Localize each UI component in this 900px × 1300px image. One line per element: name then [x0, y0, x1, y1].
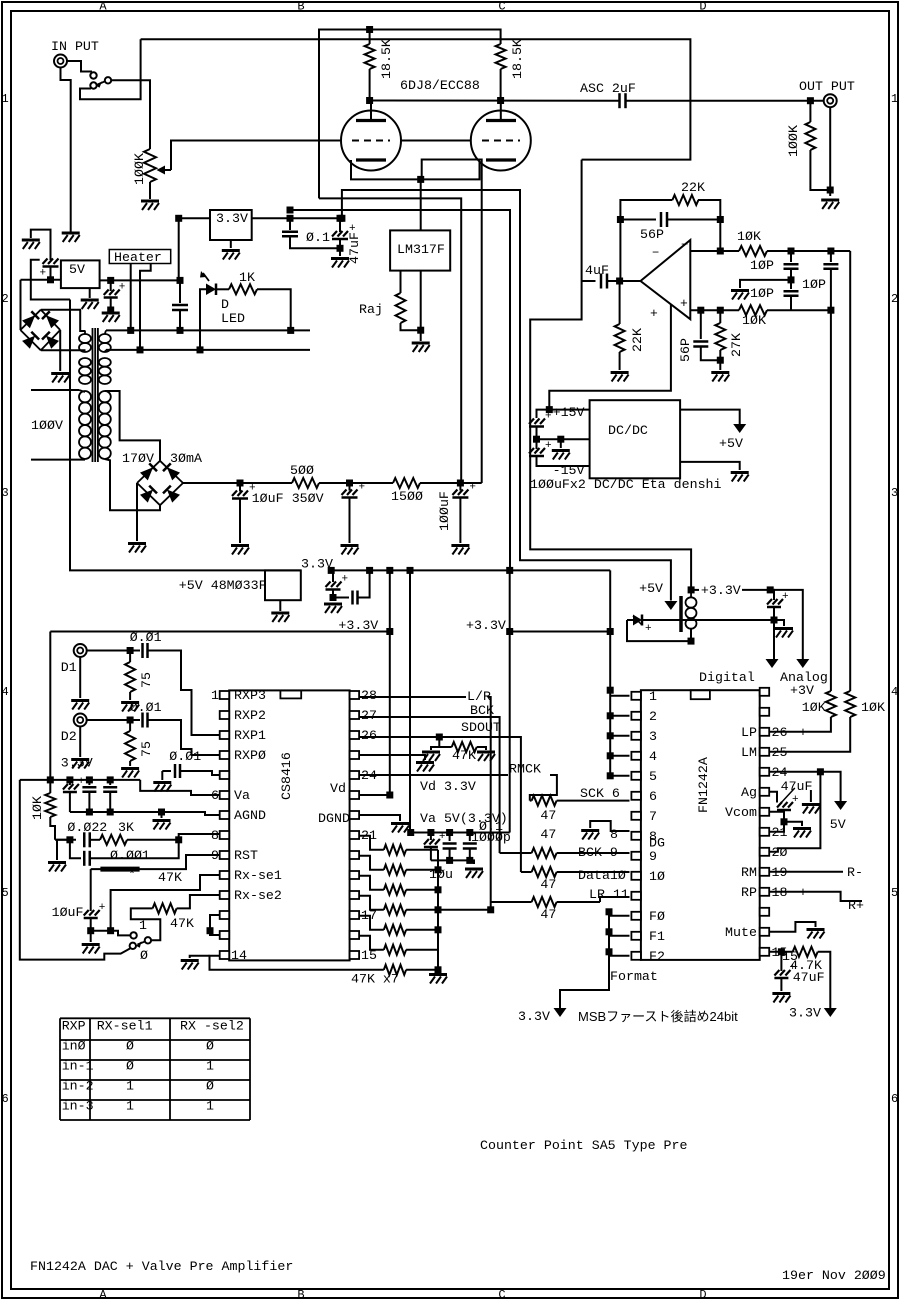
column label D top	[699, 0, 706, 14]
label 0.022	[67, 820, 107, 835]
pin number 1 CS8416	[211, 688, 219, 703]
label LR 11	[589, 887, 629, 902]
label +3V	[790, 683, 814, 698]
pin 21 CS8416 right	[350, 831, 360, 839]
capacitor C24 va ceramic	[82, 780, 96, 812]
ground sdout l	[422, 752, 440, 761]
wire pin14 wrap	[210, 956, 384, 970]
label 75 D2	[139, 741, 154, 757]
resistor R8 22K to gnd	[615, 281, 625, 370]
capacitor C30 10u	[424, 831, 446, 860]
date 19er Nov 2009	[782, 1268, 886, 1283]
pin number 20 fn	[772, 845, 788, 860]
node B+ mid	[346, 480, 353, 487]
svg-text:14: 14	[231, 948, 247, 963]
label +3.3V net	[701, 583, 741, 598]
row label 5 right	[891, 886, 898, 900]
ground bypass row	[465, 869, 483, 878]
resistor R11 10K lower	[739, 305, 831, 315]
label +3.3V mid	[466, 618, 506, 633]
pin 16 CS8416 right	[350, 931, 360, 939]
svg-text:+: +	[545, 440, 552, 452]
converter U6 DC/DC box	[590, 400, 681, 478]
svg-text:in-3: in-3	[62, 1099, 94, 1114]
svg-text:Ø: Ø	[206, 1039, 214, 1054]
wire +3.3V rail right	[510, 631, 611, 633]
label 47K sdout	[452, 748, 476, 763]
pin label RM fn	[741, 865, 757, 880]
IC U8 CS8416 body	[229, 690, 349, 960]
capacitor C25 va ceramic2	[103, 780, 117, 812]
node 3.3V out a	[287, 215, 294, 222]
wire +5V in pin	[680, 410, 740, 424]
pin label 9 fn	[649, 849, 657, 864]
label Va 5V(3.3V)	[420, 811, 508, 826]
wire 47Kx7 bus	[437, 850, 439, 970]
wire bypass row top	[410, 832, 510, 834]
pin label 4 fn	[649, 749, 657, 764]
label 1500	[391, 489, 423, 504]
wire bridge2 minus to ground	[136, 483, 138, 541]
label 27K	[729, 333, 744, 357]
pin 19 CS8416 right	[350, 871, 360, 879]
pin label DG fn	[649, 836, 665, 851]
ground rst	[48, 863, 66, 872]
pin number 25 fn	[772, 745, 788, 760]
pin label AGND	[234, 808, 266, 823]
svg-text:Ø.Ø1: Ø.Ø1	[130, 630, 162, 645]
resistor R5 500	[292, 478, 393, 488]
capacitor C21 0.01 D1	[143, 643, 220, 735]
svg-text:4: 4	[649, 749, 657, 764]
resistor R17 47K sel	[153, 895, 220, 913]
wire LED anode riser	[200, 289, 206, 350]
label BCK	[470, 703, 494, 718]
wire agnd to pin7	[162, 812, 220, 815]
svg-text:5V: 5V	[830, 817, 846, 832]
svg-text:4: 4	[2, 685, 9, 699]
net arrow +5V dcdc	[733, 424, 746, 433]
capacitor C33 47uF vcom	[777, 794, 799, 822]
svg-text:+3.3V: +3.3V	[338, 618, 378, 633]
pin 4 FN1242A left	[631, 752, 641, 760]
label +5V 48M033F	[179, 578, 267, 593]
capacitor ASC 2uF	[620, 93, 626, 108]
svg-text:RXP1: RXP1	[234, 728, 266, 743]
node opamp output	[616, 278, 623, 285]
wire 5V output	[100, 279, 180, 281]
wire plus input	[690, 309, 739, 311]
pin 24 CS8416 right	[350, 771, 360, 779]
node choke bottom	[688, 638, 695, 645]
wire pin14 gnd	[190, 956, 210, 958]
column label A top	[99, 0, 107, 14]
ground under bridge1	[51, 374, 69, 383]
wire rst gnd	[57, 840, 70, 860]
label LED	[221, 311, 245, 326]
svg-text:*: *	[128, 867, 136, 882]
capacitor C13 10P	[784, 280, 799, 310]
wire heater rail lower	[106, 349, 310, 351]
ground c26	[153, 783, 171, 792]
label 3.3V rail	[301, 557, 333, 572]
ground at input jack	[62, 230, 80, 242]
pin 24 FN1242A right	[760, 768, 770, 776]
svg-text:B: B	[297, 0, 304, 14]
svg-text:-15V: -15V	[553, 463, 585, 478]
wire grid link between tubes	[401, 140, 471, 142]
capacitor C8 0.1	[282, 218, 340, 248]
pin 5 FN1242A left	[631, 772, 641, 780]
svg-text:3K: 3K	[118, 820, 134, 835]
pin 22 CS8416 right	[350, 811, 360, 819]
node 3.3V out b	[337, 215, 344, 222]
label 100V	[31, 418, 63, 433]
svg-text:18.5K: 18.5K	[379, 39, 394, 79]
regulator U7 48M033F box	[265, 570, 301, 600]
node +3.3V b	[506, 628, 513, 635]
svg-text:B: B	[297, 1288, 304, 1300]
pin 9 CS8416 left	[220, 851, 230, 859]
node +3.3V choke	[688, 586, 695, 593]
label 100K output	[786, 125, 801, 157]
svg-text:RM: RM	[741, 865, 757, 880]
pin label LP fn	[741, 725, 757, 740]
svg-text:1ØP: 1ØP	[750, 258, 774, 273]
table row in0	[62, 1039, 214, 1054]
svg-text:Ø.1: Ø.1	[306, 230, 330, 245]
wire sdout gnd l	[431, 747, 452, 750]
pin label 5 fn	[649, 769, 657, 784]
title FN1242A DAC + Valve Pre Amplifier	[30, 1259, 293, 1274]
pin 26 CS8416 right	[350, 731, 360, 739]
resistor R24 10K lm	[769, 251, 855, 752]
pin 27 CS8416 right	[350, 711, 360, 719]
svg-text:7: 7	[649, 809, 657, 824]
label MSB japanese	[578, 1009, 738, 1024]
label SCK 6	[580, 786, 620, 801]
wire line H1 branch	[342, 190, 671, 601]
regulator U3 LM317F box	[390, 230, 450, 270]
wire digital gnd stub	[774, 620, 784, 626]
label 47 c	[540, 877, 556, 892]
node plus right	[827, 307, 834, 314]
svg-text:Ø.ØØ1: Ø.ØØ1	[110, 848, 150, 863]
net label Heater box	[109, 250, 170, 266]
wire 3.3Vd top rail	[49, 632, 51, 780]
resistor R7 Raj	[396, 271, 421, 331]
wire +3.3V label line	[691, 589, 770, 591]
svg-text:47K x7: 47K x7	[351, 972, 399, 987]
node plus in b	[717, 307, 724, 314]
svg-text:D: D	[699, 0, 706, 14]
label +3.3V left	[338, 618, 378, 633]
row label 1 left	[2, 92, 9, 106]
pin label RXP3	[234, 688, 266, 703]
wire c26 gnd	[161, 771, 163, 780]
wire 5V reg ground	[89, 288, 91, 298]
wire pin24 5V	[769, 772, 840, 801]
capacitor C23 va electrolytic	[63, 776, 85, 812]
svg-text:27K: 27K	[729, 333, 744, 357]
resistor R2 18.5K right plate	[496, 44, 506, 101]
node B+ rail junction	[366, 26, 373, 33]
wire D2 to cap	[87, 719, 140, 721]
wire BCK line	[359, 717, 500, 853]
capacitor C18 rail electrolytic	[326, 570, 349, 597]
svg-text:R-: R-	[847, 865, 863, 880]
wire rail right part	[330, 569, 610, 571]
row label 3 left	[2, 486, 9, 500]
label 3.3V reg	[216, 211, 248, 226]
wire +15V pin	[537, 410, 590, 418]
label 500	[290, 463, 314, 478]
wire 3.3V reg gnd	[230, 240, 232, 248]
capacitor C11 56P feedback	[620, 212, 720, 227]
regulator U2 5V box	[61, 260, 100, 288]
pin label RXP2	[234, 708, 266, 723]
label 10K lower	[742, 313, 766, 328]
label 47K rst	[158, 870, 182, 885]
node analog tap	[767, 586, 774, 593]
capacitor C15 56P to gnd	[693, 310, 720, 360]
ground under 48M033F	[271, 613, 289, 622]
wire +5V heater branch	[31, 260, 70, 300]
pin 14 FN1242A left	[631, 952, 641, 960]
ground 47Kx7	[429, 975, 447, 984]
ground D1 jack	[71, 701, 89, 710]
svg-text:75: 75	[139, 672, 154, 688]
column label C bottom	[498, 1288, 505, 1300]
svg-text:Ø.Ø22: Ø.Ø22	[67, 820, 107, 835]
wire rst to pin8	[179, 834, 220, 840]
wire sw top stub	[111, 931, 131, 936]
svg-text:+5V: +5V	[639, 581, 663, 596]
capacitor C26 0.01 filt	[162, 764, 220, 778]
capacitor C28 0.001	[70, 840, 179, 866]
table row in-3	[62, 1099, 214, 1114]
svg-text:+5V: +5V	[719, 436, 743, 451]
capacitor C27 0.022	[84, 832, 100, 847]
svg-text:1: 1	[126, 1099, 134, 1114]
table row in-1	[62, 1059, 214, 1074]
wire B+ top rail	[319, 30, 501, 199]
svg-text:RX-sel1: RX-sel1	[97, 1019, 153, 1034]
pin 16 FN1242A right	[760, 928, 770, 936]
wire 10uF gnd	[90, 931, 92, 942]
table header RXP	[62, 1019, 86, 1034]
wire cathode right	[421, 161, 480, 179]
svg-text:1ØP: 1ØP	[802, 277, 826, 292]
label 56P vertical	[678, 338, 693, 362]
svg-text:+: +	[645, 623, 652, 635]
svg-text:3.3V: 3.3V	[789, 1006, 821, 1021]
wire bypass row bottom	[431, 860, 474, 864]
ground digital	[775, 629, 793, 638]
svg-text:1ØK: 1ØK	[802, 700, 826, 715]
capacitor C29 10uF rst	[84, 902, 106, 931]
label star	[128, 867, 136, 882]
wire right-top winding leads	[105, 330, 106, 352]
svg-text:RXP2: RXP2	[234, 708, 266, 723]
ground under 5V reg	[81, 300, 99, 309]
transformer winding heater left-top	[79, 331, 91, 352]
svg-text:+3V: +3V	[790, 683, 814, 698]
wire DCDC gnd pin	[537, 438, 590, 440]
column label B top	[297, 0, 304, 14]
label 47uF top	[347, 232, 362, 264]
pin 5 CS8416 left	[220, 771, 230, 779]
svg-text:1ØØK: 1ØØK	[132, 153, 147, 185]
svg-text:D2: D2	[61, 729, 77, 744]
transformer winding right-mid	[99, 358, 111, 384]
svg-text:56P: 56P	[678, 338, 693, 362]
node pin15	[778, 948, 785, 955]
wire agnd stub	[161, 812, 163, 818]
svg-text:C: C	[498, 1288, 505, 1300]
resistor R9 22K feedback	[672, 195, 698, 205]
wire 10P mid to gnd	[740, 280, 791, 288]
wire cathode left	[351, 160, 421, 179]
svg-text:+3.3V: +3.3V	[701, 583, 741, 598]
wire sck feed	[530, 800, 532, 802]
wire jack ground drop	[61, 68, 71, 231]
svg-text:+: +	[40, 268, 47, 280]
svg-text:AGND: AGND	[234, 808, 266, 823]
node +15V	[546, 406, 553, 413]
ground pin14	[181, 961, 199, 970]
svg-text:A: A	[99, 1288, 107, 1300]
node rst right	[175, 836, 182, 843]
svg-text:1ØK: 1ØK	[30, 796, 45, 820]
resistor 47Kx7 row 7	[384, 965, 438, 975]
svg-text:Format: Format	[610, 969, 658, 984]
node rail cap gnd	[330, 594, 337, 601]
svg-text:RXP: RXP	[62, 1019, 86, 1034]
label 22K vertical	[630, 328, 645, 352]
svg-text:Raj: Raj	[359, 302, 383, 317]
pin number 17 CS8416	[361, 908, 377, 923]
ground under bridge2	[128, 544, 146, 553]
node cap on rail1	[177, 327, 184, 334]
svg-text:8: 8	[610, 827, 618, 842]
switch SW2 rx select	[130, 932, 151, 949]
wire pin15 net	[769, 951, 793, 953]
resistor R3 100K output load	[805, 101, 830, 190]
transformer winding left-mid	[79, 358, 91, 384]
svg-text:15: 15	[782, 949, 798, 964]
node line B tap	[287, 207, 294, 214]
label CS8416	[279, 752, 294, 800]
label ASC 2uF	[580, 81, 636, 96]
wire 47x7 gnd stub	[437, 970, 439, 972]
svg-text:3.3V: 3.3V	[518, 1009, 550, 1024]
label 10uF rst	[52, 905, 84, 920]
svg-text:18.5K: 18.5K	[510, 39, 525, 79]
svg-text:+: +	[469, 482, 476, 494]
svg-text:47K: 47K	[158, 870, 182, 885]
pin number 15 CS8416	[361, 948, 377, 963]
ground D2 jack	[71, 760, 89, 769]
label 47uF vcom	[781, 779, 813, 794]
node vcom	[781, 818, 788, 825]
svg-text:Vd 3.3V: Vd 3.3V	[420, 779, 476, 794]
pin number 18 fn	[772, 885, 788, 900]
svg-text:SCK 6: SCK 6	[580, 786, 620, 801]
svg-text:1ØP: 1ØP	[750, 286, 774, 301]
svg-text:15ØØ: 15ØØ	[391, 489, 423, 504]
label 0.01 filt	[169, 749, 201, 764]
svg-text:35ØV: 35ØV	[292, 491, 324, 506]
wire bridge1 minus to ground	[59, 330, 61, 371]
wire D1 to cap	[87, 650, 140, 652]
wire choke bottom	[627, 620, 691, 641]
node 3p3 input tap	[175, 215, 182, 222]
svg-text:F2: F2	[649, 949, 665, 964]
label 47K x7	[351, 972, 399, 987]
pin 22 FN1242A right	[760, 808, 770, 816]
svg-text:LM: LM	[741, 745, 757, 760]
pin number 9 CS8416	[211, 848, 219, 863]
wire L/R line	[359, 697, 491, 910]
bridge rectifier B1 heater	[20, 310, 60, 351]
svg-text:28: 28	[361, 688, 377, 703]
svg-text:+: +	[650, 306, 658, 321]
label D	[221, 297, 229, 312]
label 3K	[118, 820, 134, 835]
node plate left	[366, 97, 373, 104]
pin label 3 fn	[649, 729, 657, 744]
ground vcom b	[793, 829, 811, 838]
svg-text:LED: LED	[221, 311, 245, 326]
svg-text:47uF: 47uF	[793, 970, 825, 985]
wire sw pos0 loop	[20, 780, 130, 960]
node plus in a	[697, 307, 704, 314]
label 0.1 row	[479, 819, 503, 834]
column label B bottom	[297, 1288, 304, 1300]
label 1K	[239, 270, 255, 285]
node plate right	[497, 97, 504, 104]
svg-text:DC/DC: DC/DC	[608, 423, 648, 438]
wire ag pin	[769, 792, 777, 803]
svg-text:1ØK: 1ØK	[861, 700, 885, 715]
svg-text:ASC 2uF: ASC 2uF	[580, 81, 636, 96]
label 3.3V mute	[789, 1006, 821, 1021]
svg-text:2: 2	[649, 709, 657, 724]
svg-text:1ØØuF: 1ØØuF	[437, 491, 452, 531]
node minus in	[717, 248, 724, 255]
svg-text:+: +	[792, 794, 799, 806]
svg-text:6DJ8/ECC88: 6DJ8/ECC88	[400, 78, 480, 93]
node 47x7 2	[435, 886, 442, 893]
row label 4 left	[2, 685, 9, 699]
ground under 22K	[611, 373, 629, 382]
pin number 27 CS8416	[361, 708, 377, 723]
pin label 2 fn	[649, 709, 657, 724]
wire 4uF feed drop	[530, 160, 691, 590]
svg-text:Vcom: Vcom	[725, 805, 757, 820]
label sw 0	[140, 948, 148, 963]
node row bot b	[446, 857, 453, 864]
node 10uF bottom	[87, 927, 94, 934]
pin label RST	[234, 848, 258, 863]
label 100K pot	[132, 153, 147, 185]
wire digital branch	[770, 590, 774, 600]
label 8 fn	[610, 827, 618, 842]
resistor 47Kx7 row 4	[359, 896, 438, 915]
svg-text:4: 4	[891, 685, 898, 699]
pin number 15 fn	[772, 945, 788, 960]
